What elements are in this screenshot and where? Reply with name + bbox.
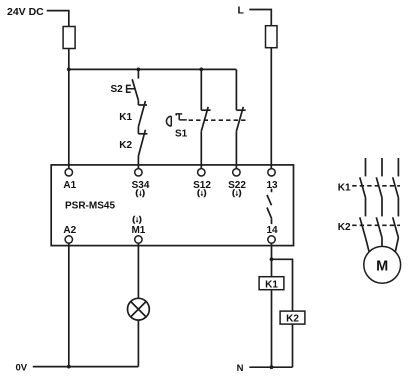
junction node K2 branch bbox=[270, 257, 274, 261]
contactor K1 pole 1 bbox=[360, 158, 366, 198]
svg-text:K2: K2 bbox=[338, 222, 351, 233]
svg-text:14: 14 bbox=[266, 225, 278, 236]
wire K2 contact to S34 bbox=[137, 156, 139, 169]
relay box PSR-MS45 bbox=[51, 165, 293, 246]
contact S1 pole 2 NC bbox=[236, 69, 245, 168]
wire branch to K2 bbox=[272, 259, 293, 311]
junction node S12 branch bbox=[199, 68, 203, 72]
motor M bbox=[364, 246, 401, 283]
contactor K2 linkage dashed bbox=[352, 224, 400, 226]
contactor K1 linkage dashed bbox=[352, 185, 400, 187]
contactor K1 pole 3 bbox=[393, 158, 399, 198]
terminal S12 bbox=[198, 169, 205, 176]
svg-text:24V DC: 24V DC bbox=[7, 6, 44, 18]
rail 0V bbox=[33, 366, 139, 368]
svg-text:M: M bbox=[376, 258, 388, 274]
terminal S22 bbox=[233, 169, 240, 176]
svg-text:M1: M1 bbox=[131, 225, 145, 236]
wire K1 pole leads to K2 poles bbox=[366, 198, 399, 217]
svg-text:K2: K2 bbox=[286, 314, 299, 325]
terminal A1 bbox=[65, 169, 72, 176]
rail N bbox=[249, 366, 292, 368]
wire K1 coil to N bbox=[271, 290, 273, 368]
contactor K2 pole 1 bbox=[360, 217, 366, 237]
junction node 0V bbox=[67, 365, 71, 369]
wire A2 to 0V rail bbox=[68, 243, 70, 366]
junction node N bbox=[270, 365, 274, 369]
svg-text:A1: A1 bbox=[63, 180, 76, 191]
svg-text:0V: 0V bbox=[16, 363, 28, 374]
svg-text:K1: K1 bbox=[265, 279, 278, 290]
svg-text:L: L bbox=[238, 5, 245, 17]
contactor K2 pole 3 bbox=[393, 217, 399, 237]
svg-text:K1: K1 bbox=[119, 112, 132, 123]
wire F2 down to 13 bbox=[270, 48, 272, 169]
svg-text:(↓): (↓) bbox=[197, 188, 207, 197]
svg-text:(↓): (↓) bbox=[132, 215, 142, 224]
wire M1 to lamp bbox=[137, 243, 139, 298]
coil K2 bbox=[280, 311, 305, 325]
wires to motor bbox=[366, 238, 399, 252]
contact K2 NC feedback bbox=[138, 127, 147, 156]
svg-text:(↓): (↓) bbox=[232, 188, 242, 197]
coil K1 bbox=[259, 277, 284, 291]
terminal S34 bbox=[135, 169, 142, 176]
svg-text:K1: K1 bbox=[338, 183, 351, 194]
contact K1 NC feedback bbox=[138, 100, 147, 126]
fuse F1 bbox=[63, 27, 75, 49]
svg-text:S1: S1 bbox=[175, 128, 188, 139]
contactor K2 pole 2 bbox=[376, 217, 382, 237]
junction node 24V bus left bbox=[67, 68, 71, 72]
svg-text:(↓): (↓) bbox=[136, 188, 146, 197]
svg-text:K2: K2 bbox=[119, 140, 132, 151]
indicator lamp bbox=[127, 298, 149, 320]
contact S2 start button NO bbox=[127, 69, 139, 100]
svg-text:A2: A2 bbox=[63, 225, 76, 236]
svg-text:PSR-MS45: PSR-MS45 bbox=[65, 201, 115, 212]
contact 13-14 safety output bbox=[267, 189, 272, 225]
wire 24V horizontal bus bbox=[69, 68, 237, 70]
wire K2 coil to N bbox=[292, 324, 294, 367]
contact S1 pole 1 NC bbox=[201, 69, 210, 168]
svg-text:S2: S2 bbox=[111, 84, 124, 95]
emergency stop mushroom actuator S1 bbox=[166, 114, 186, 126]
linkage dashed line S1 bbox=[189, 119, 246, 121]
wire 24V DC feed bbox=[47, 11, 69, 27]
terminal 13 bbox=[268, 169, 275, 176]
terminal A2 bbox=[65, 236, 72, 243]
wire 14 down bbox=[271, 243, 273, 277]
wire L feed bbox=[249, 10, 271, 26]
junction node S2 branch bbox=[137, 68, 141, 72]
wire F1 down to A1 bbox=[68, 49, 70, 169]
wire lamp to 0V rail bbox=[137, 320, 139, 367]
fuse F2 bbox=[266, 26, 278, 48]
svg-text:N: N bbox=[237, 363, 244, 374]
terminal M1 bbox=[135, 236, 142, 243]
contactor K1 pole 2 bbox=[376, 158, 382, 198]
